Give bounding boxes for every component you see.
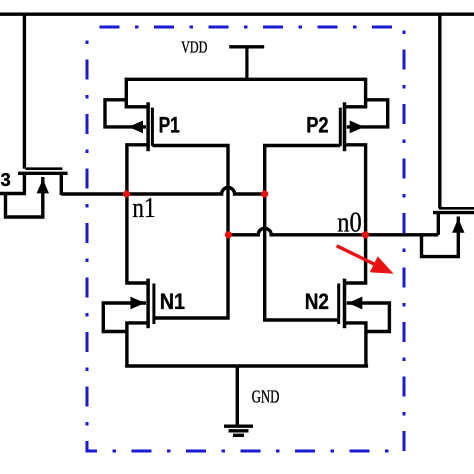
wire cross-couple n1 to P2/N2 gates [265, 146, 341, 321]
dash-dot boundary box [87, 27, 404, 451]
svg-text:VDD: VDD [181, 39, 207, 57]
transistor P1 channel bar [146, 102, 150, 151]
transistor P2 source lead [345, 78, 366, 107]
wire P1-drain to N1-drain (node n1 vertical) [127, 145, 148, 283]
transistor N2 gate plate [337, 284, 340, 325]
wire VDD rail [125, 78, 366, 81]
transistor N1 gate plate [152, 284, 155, 325]
wire GND stem [236, 366, 239, 426]
wire WL word-line rail [0, 12, 474, 15]
access transistor M3 bulk arrow [37, 179, 49, 193]
transistor N2 bulk arrow [348, 297, 362, 310]
access transistor right gate bar [439, 207, 474, 210]
wire P2-drain to N2-drain (node n0 vertical) [345, 145, 366, 283]
access transistor right bulk arrow [452, 218, 464, 233]
svg-text:n0: n0 [337, 205, 361, 237]
transistor P2 bulk arrow [350, 121, 365, 134]
transistor N2 source lead [345, 323, 366, 367]
access transistor right bit-line lead [438, 14, 441, 208]
transistor P1 gate plate [151, 108, 154, 146]
transistor N2 bulk loop [347, 303, 390, 332]
svg-text:N2: N2 [305, 290, 329, 315]
transistor P1 source lead [126, 78, 148, 107]
access transistor M3 gate bar [26, 167, 63, 170]
access transistor right lead to n0 [437, 214, 440, 235]
transistor P2 channel bar [343, 102, 347, 151]
transistor P1 bulk loop [105, 100, 146, 127]
transistor N1 source lead [127, 323, 148, 367]
transistor N2 channel bar [343, 279, 347, 329]
VDD power symbol [229, 45, 264, 48]
access transistor M3 channel bar [18, 172, 68, 175]
transistor P2 bulk loop [347, 100, 388, 127]
svg-text:P1: P1 [159, 114, 180, 138]
transistor N1 channel bar [146, 279, 150, 329]
transistor N1 bulk loop [103, 303, 146, 332]
access transistor right bulk loop [422, 217, 459, 257]
access transistor M3 right lead to n1 [60, 174, 63, 195]
transistor P1 bulk arrow [128, 121, 143, 134]
svg-text:P2: P2 [306, 114, 328, 138]
svg-text:GND: GND [252, 388, 280, 407]
access transistor M3 bit-line lead [23, 14, 26, 169]
wire cross-couple n0 to P1/N1 gates [152, 146, 228, 319]
svg-text:N1: N1 [160, 290, 186, 314]
transistor N1 bulk arrow [130, 297, 144, 310]
wire GND rail [125, 364, 368, 367]
access transistor right channel bar [433, 211, 474, 214]
access transistor M3 bulk loop [6, 177, 43, 217]
access transistor M3 left lead [0, 174, 26, 194]
node n0 junction dot right [362, 231, 369, 238]
wire node n0 horizontal with hop over x=264.7 [229, 228, 439, 235]
node n0 junction dot left [225, 231, 232, 238]
svg-text:3: 3 [1, 169, 11, 190]
red annotation arrow at n0 [337, 246, 378, 266]
wire node n1 horizontal with hop over x=228 [61, 188, 264, 194]
transistor P2 gate plate [339, 108, 342, 146]
node n1 junction dot left [123, 190, 130, 197]
ground symbol [224, 426, 253, 435]
node n1 junction dot right [261, 190, 268, 197]
svg-text:n1: n1 [132, 191, 155, 223]
